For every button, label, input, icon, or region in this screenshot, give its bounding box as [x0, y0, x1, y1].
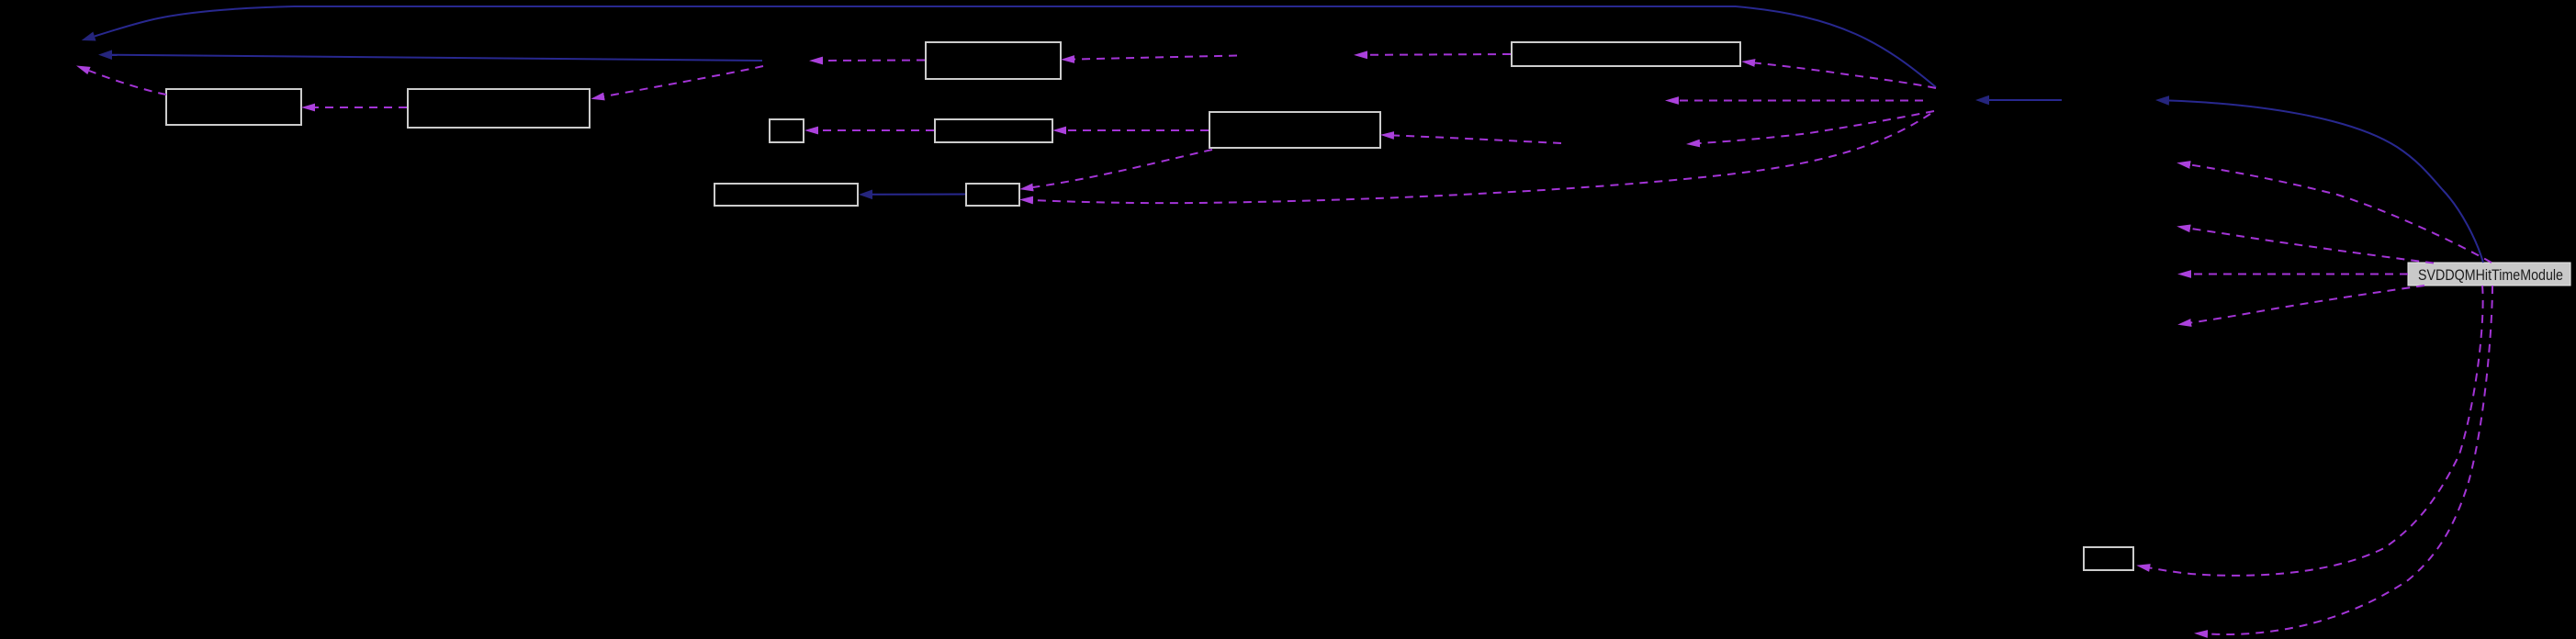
- node box B-lowleft: [714, 184, 858, 206]
- blue inheritance edge: IN1 to far-left node FL2: [112, 55, 762, 61]
- purple dashed edge: main node to bottom node (swoosh B): [2208, 286, 2492, 634]
- node box B-lowsm: [966, 184, 1019, 206]
- purple dashed edge: main node to midright node 4 (f4): [2191, 286, 2424, 323]
- node box A: [166, 89, 301, 125]
- purple dashed edge: box C1 to IN2r: [1367, 53, 1511, 56]
- purple dashed edge: IN2r to box D1: [1074, 56, 1237, 60]
- node box B-sm1: [770, 119, 804, 142]
- node SVDDQMHitTimeModule (main): [2408, 263, 2570, 286]
- purple dashed edge: box C-left to box B-mid: [1066, 129, 1209, 131]
- node box B-mid: [935, 119, 1052, 142]
- purple dashed edge: main node to midright node 2 (f2): [2190, 229, 2434, 263]
- node box H1: [2084, 547, 2133, 570]
- blue inheritance edge: B-lowsm to B-lowleft: [872, 194, 965, 196]
- node box B: [408, 89, 590, 128]
- svg-text:SVDDQMHitTimeModule: SVDDQMHitTimeModule: [2418, 267, 2563, 284]
- node box D1: [926, 42, 1061, 79]
- purple dashed edge: N_mid to box B-lowsm (fan 4): [1033, 114, 1930, 203]
- purple dashed edge: main node to midright node 3 (f3): [2191, 274, 2408, 275]
- purple dashed edge: box B to box A: [315, 106, 407, 108]
- blue inheritance edge: big top curve N_mid to far-left node FL1: [95, 6, 1936, 87]
- purple dashed edge: box A to far-left node FL3: [89, 71, 166, 95]
- purple dashed edge: N_mid to IN3r (fan 2): [1679, 100, 1923, 102]
- purple dashed edge: box B-mid to box B-sm1: [818, 129, 934, 131]
- purple dashed edge: N_mid to box C1 (fan 1): [1755, 63, 1936, 89]
- blue inheritance edge: main node to N_mid2: [2169, 101, 2483, 263]
- purple dashed edge: main node to midright node 1 (f1): [2190, 165, 2492, 263]
- node box C1: [1512, 42, 1740, 66]
- purple dashed edge: box D1 to IN1: [823, 60, 925, 62]
- purple dashed edge: IN4 to box C-left: [1394, 136, 1561, 144]
- node box C-left: [1209, 112, 1380, 148]
- purple dashed edge: box C-left to box B-lowsm: [1033, 150, 1212, 187]
- blue inheritance edge: N_mid2 to N_mid: [1989, 99, 2062, 101]
- purple dashed edge: main node to box H1 (swoosh A): [2150, 286, 2483, 576]
- purple dashed edge: N_mid to IN4 (fan 3): [1700, 111, 1934, 143]
- purple dashed edge: IN1 to box B: [604, 66, 763, 96]
